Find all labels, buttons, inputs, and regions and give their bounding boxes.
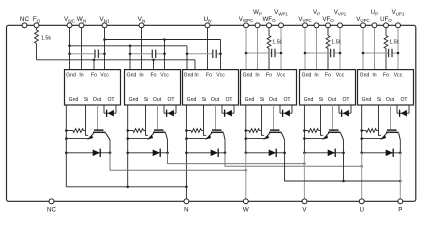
svg-text:NC: NC: [20, 16, 30, 23]
wire U6 Gnd pin to emitter rail: [361, 105, 363, 153]
node freewheel cathode junction: [109, 152, 112, 155]
wire U5 Si pin down: [321, 105, 324, 135]
node RS4/emitter-rail junction: [245, 129, 248, 132]
capacitor C6 (U6 supply): [363, 49, 398, 57]
wire U5 Out pin to gate of Q5: [332, 105, 334, 129]
wire emitter Q6 to terminal U: [361, 153, 363, 202]
wire emitter Q5 to terminal V: [303, 153, 305, 202]
wire Vcc bus tap to U2: [164, 40, 166, 70]
terminal Fo (top): [34, 23, 39, 28]
terminal VWPC: [244, 23, 249, 28]
wire Gnd bus tap to U3: [186, 46, 188, 70]
svg-text:Vcc: Vcc: [100, 73, 109, 79]
wire collector of Q3 down: [224, 140, 226, 153]
node N-bus/Q2 junction: [126, 186, 129, 189]
terminal WFO: [267, 23, 272, 28]
node C6 left junction: [362, 52, 365, 55]
terminal UN: [205, 23, 210, 28]
svg-text:OT: OT: [167, 97, 174, 103]
svg-text:Gnd: Gnd: [362, 97, 372, 103]
node RS6/emitter-rail junction: [360, 129, 363, 132]
terminal W (bottom): [243, 199, 248, 204]
wire U2 Si pin down: [146, 105, 149, 135]
terminal U (bottom): [359, 199, 364, 204]
svg-text:Out: Out: [328, 97, 337, 103]
svg-text:Vcc: Vcc: [336, 73, 345, 79]
driver IC U4: [241, 70, 297, 105]
node P-bus/Q5 junction: [342, 180, 345, 183]
node freewheel anode junction: [185, 152, 188, 155]
diode DS4 (OT sense): [280, 105, 292, 117]
svg-text:Vcc: Vcc: [216, 73, 225, 79]
svg-text:Si: Si: [260, 97, 265, 103]
terminal UFO: [384, 23, 389, 28]
node freewheel anode junction: [65, 152, 68, 155]
svg-text:Si: Si: [144, 97, 149, 103]
svg-text:Vcc: Vcc: [277, 73, 286, 79]
node freewheel cathode junction: [399, 152, 402, 155]
wire VUPC to U6 Gnd: [362, 28, 364, 70]
svg-text:Out: Out: [211, 97, 220, 103]
wire U6 Si pin down: [379, 105, 382, 135]
svg-text:Fo: Fo: [383, 73, 389, 79]
svg-text:Fo: Fo: [325, 73, 331, 79]
node RS1/emitter-rail junction: [65, 129, 68, 132]
wire collector of Q5 down: [343, 140, 345, 153]
terminal VFO: [326, 23, 331, 28]
wire U5 Gnd pin to emitter rail: [303, 105, 305, 153]
node VN1/Vcc-bus junction: [103, 38, 106, 41]
diode D1 (freewheel): [66, 149, 110, 157]
node RS2/emitter-rail junction: [126, 129, 129, 132]
node W-line/Q4-emitter junction: [245, 169, 248, 172]
node emitter/rail junction: [245, 137, 248, 140]
svg-text:Vcc: Vcc: [394, 73, 403, 79]
node C4 right junction: [280, 52, 283, 55]
svg-text:Si: Si: [84, 97, 89, 103]
svg-text:In: In: [79, 73, 83, 79]
svg-text:Gnd: Gnd: [66, 73, 76, 79]
wire Fo tap to U2: [153, 60, 155, 70]
svg-text:Gnd: Gnd: [304, 97, 314, 103]
svg-text:OT: OT: [225, 97, 232, 103]
wire U3 Gnd pin to emitter rail: [185, 105, 187, 153]
resistor R4 1.5k (UFO): [384, 28, 388, 70]
svg-text:Gnd: Gnd: [129, 97, 139, 103]
package outline: [7, 25, 416, 201]
terminal V (bottom): [302, 199, 307, 204]
svg-text:Gnd: Gnd: [187, 97, 197, 103]
terminal N (bottom): [184, 199, 189, 204]
wire collector of Q2 down: [167, 140, 169, 153]
resistor R1 1.5k (Fo pull-up): [35, 28, 39, 60]
wire collector Q2 to V line: [168, 153, 305, 164]
wire U1 Si pin down: [86, 105, 89, 135]
terminal NC (top): [22, 23, 27, 28]
diode D3 (freewheel): [186, 149, 225, 157]
node RS3/emitter-rail junction: [185, 129, 188, 132]
node C2 right junction: [163, 53, 166, 56]
wire WN to U1 In: [81, 28, 83, 70]
svg-text:OT: OT: [107, 97, 114, 103]
node C4 left junction: [245, 52, 248, 55]
svg-text:Gnd: Gnd: [127, 73, 137, 79]
driver IC U6: [358, 70, 414, 105]
wire emitter Q4 to terminal W: [245, 153, 247, 202]
terminal VN1: [102, 23, 107, 28]
svg-text:Gnd: Gnd: [245, 97, 255, 103]
node V-line/Q5-emitter junction: [303, 162, 306, 165]
wire collector Q6 to terminal P: [399, 153, 401, 202]
wire UN to U3 In: [207, 28, 209, 70]
wire emitter Q2 to N bus: [127, 153, 129, 187]
node Gnd-bus/U2 junction: [129, 45, 132, 48]
transistor Q6 (IGBT): [380, 130, 400, 140]
terminal WP: [255, 23, 260, 28]
wire U4 Gnd pin to emitter rail: [245, 105, 247, 153]
diode D4 (freewheel): [246, 149, 285, 157]
wire VP to U5 In: [316, 28, 318, 70]
terminal VVPC: [303, 23, 308, 28]
node freewheel anode junction: [303, 152, 306, 155]
svg-text:Gnd: Gnd: [184, 73, 194, 79]
resistor RS2 (sense): [128, 129, 146, 133]
wire collector Q1 to W line: [110, 153, 246, 171]
svg-text:Si: Si: [202, 97, 207, 103]
wire VWP1 to U4 Vcc: [280, 28, 282, 70]
wire U1 Gnd pin to emitter rail: [65, 105, 67, 153]
wire collector of Q1 down: [109, 140, 111, 153]
node freewheel anode junction: [245, 152, 248, 155]
svg-text:OT: OT: [342, 97, 349, 103]
svg-text:W: W: [243, 207, 249, 214]
wire Fo tap to U3: [194, 60, 196, 70]
node C5 right junction: [339, 52, 342, 55]
svg-text:OT: OT: [283, 97, 290, 103]
diode D5 (freewheel): [304, 149, 343, 157]
wire emitter of Q2 to rail: [128, 138, 149, 140]
diode DS1 (OT sense): [104, 105, 116, 117]
svg-text:In: In: [314, 73, 318, 79]
node C6 right junction: [397, 52, 400, 55]
capacitor C3 (U3 supply): [187, 50, 221, 58]
svg-text:OT: OT: [400, 97, 407, 103]
wire collector Q3 to U line: [225, 153, 362, 166]
svg-text:NC: NC: [47, 207, 56, 214]
node Vcc-bus/U2 junction: [163, 38, 166, 41]
resistor RS5 (sense): [304, 129, 320, 133]
node freewheel anode junction: [360, 152, 363, 155]
terminal WN: [79, 23, 84, 28]
node emitter/rail junction: [126, 137, 129, 140]
svg-text:U: U: [359, 207, 363, 214]
diode D2 (freewheel): [128, 149, 168, 157]
wire emitter of Q3 to rail: [186, 138, 206, 140]
transistor Q4 (IGBT): [263, 130, 285, 140]
resistor RS1 (sense): [66, 129, 85, 133]
diode DS6 (OT sense): [397, 105, 409, 117]
wire U4 Si pin down: [262, 105, 265, 135]
resistor RS3 (sense): [186, 129, 203, 133]
svg-text:In: In: [255, 73, 259, 79]
svg-text:Out: Out: [386, 97, 395, 103]
wire emitter Q1 to N bus: [65, 153, 67, 187]
wire emitter of Q4 to rail: [246, 138, 265, 140]
svg-text:Out: Out: [269, 97, 278, 103]
terminal VN: [139, 23, 144, 28]
svg-text:Gnd: Gnd: [243, 73, 253, 79]
svg-text:Fo: Fo: [151, 73, 157, 79]
node Fo/U1 junction: [93, 59, 96, 62]
node freewheel cathode junction: [224, 152, 227, 155]
svg-text:1.5k: 1.5k: [41, 36, 51, 42]
node freewheel anode junction: [126, 152, 129, 155]
wire Gnd bus (VNC to U2/U3): [70, 45, 188, 47]
wire VNC to U1 Gnd: [69, 28, 71, 70]
node P-bus/Q6 junction: [399, 180, 402, 183]
capacitor C1 (VN1-VNC, U1): [70, 50, 105, 58]
svg-text:Fo: Fo: [206, 73, 212, 79]
wire emitter Q3 to terminal N: [185, 153, 187, 202]
wire Gnd bus tap to U2: [129, 46, 131, 70]
svg-text:Gnd: Gnd: [302, 73, 312, 79]
wire Fo tap to U1: [93, 60, 95, 70]
diode D6 (freewheel): [362, 149, 401, 157]
wire U6 Out pin to gate of Q6: [390, 105, 392, 129]
node emitter/rail junction: [360, 137, 363, 140]
wire N bus: [66, 186, 186, 188]
svg-text:Out: Out: [93, 97, 102, 103]
node C2 left junction: [129, 53, 132, 56]
wire WP to U4 In: [257, 28, 259, 70]
node VNC/Gnd-bus junction: [68, 45, 71, 48]
svg-text:In: In: [139, 73, 143, 79]
terminal VP: [314, 23, 319, 28]
resistor RS6 (sense): [362, 129, 379, 133]
node emitter/rail junction: [65, 137, 68, 140]
driver IC U1: [65, 70, 121, 105]
node C3 right junction: [219, 53, 222, 56]
node emitter/rail junction: [303, 137, 306, 140]
svg-text:Si: Si: [319, 97, 324, 103]
diode DS3 (OT sense): [222, 105, 234, 117]
svg-text:Fo: Fo: [91, 73, 97, 79]
wire VUP1 to U6 Vcc: [397, 28, 399, 70]
svg-text:Vcc: Vcc: [160, 73, 169, 79]
wire U1 Out pin to gate of Q1: [97, 105, 99, 129]
svg-text:Si: Si: [377, 97, 382, 103]
wire emitter of Q5 to rail: [304, 138, 323, 140]
transistor Q2 (IGBT): [147, 130, 168, 140]
svg-text:Gnd: Gnd: [360, 73, 370, 79]
node C5 left junction: [304, 52, 307, 55]
wire U2 Gnd pin to emitter rail: [127, 105, 129, 153]
node C1 left junction: [68, 53, 71, 56]
node C3 left junction: [186, 53, 189, 56]
driver IC U2: [125, 70, 181, 105]
transistor Q5 (IGBT): [322, 130, 344, 140]
node C1 right junction: [103, 53, 106, 56]
node freewheel cathode junction: [342, 152, 345, 155]
terminal P (bottom): [398, 199, 403, 204]
terminal VNC: [67, 23, 72, 28]
wire Fo bus: [37, 59, 196, 61]
svg-text:P: P: [398, 207, 402, 214]
svg-text:In: In: [372, 73, 376, 79]
wire VN to U2 In: [141, 28, 143, 70]
transistor Q3 (IGBT): [205, 130, 225, 140]
transistor Q1 (IGBT): [87, 130, 110, 140]
terminal NC (bottom): [49, 199, 54, 204]
driver IC U3: [183, 70, 239, 105]
terminal VUP1: [396, 23, 401, 28]
wire Vcc bus (VN1 to U2/U3): [105, 39, 221, 41]
terminal VWP1: [279, 23, 284, 28]
wire collector Q5 to P bus: [343, 153, 345, 181]
svg-text:Fo: Fo: [266, 73, 272, 79]
node U-line/Q6-emitter junction: [360, 165, 363, 168]
wire VN1 to U1 Vcc: [104, 28, 106, 70]
wire emitter of Q6 to rail: [362, 138, 382, 140]
node freewheel cathode junction: [166, 152, 169, 155]
resistor R3 1.5k (VFO): [326, 28, 330, 70]
wire collector of Q6 down: [399, 140, 401, 153]
terminal VVP1: [338, 23, 343, 28]
svg-text:In: In: [194, 73, 198, 79]
svg-text:Gnd: Gnd: [69, 97, 79, 103]
diode DS5 (OT sense): [339, 105, 351, 117]
wire VWPC to U4 Gnd: [245, 28, 247, 70]
diode DS2 (OT sense): [164, 105, 176, 117]
wire emitter of Q1 to rail: [66, 138, 88, 140]
node Fo/U2 junction: [152, 59, 155, 62]
wire U3 Si pin down: [204, 105, 207, 135]
wire collector of Q4 down: [284, 140, 286, 153]
terminal VUPC: [361, 23, 366, 28]
wire Vcc bus tap to U3: [220, 40, 222, 70]
resistor R2 1.5k (WFO): [267, 28, 271, 70]
capacitor C4 (U4 supply): [246, 49, 281, 57]
terminal UP: [372, 23, 377, 28]
node freewheel cathode junction: [283, 152, 286, 155]
wire collector Q4 to P bus: [285, 153, 401, 181]
wire UP to U6 In: [374, 28, 376, 70]
wire U4 Out pin to gate of Q4: [273, 105, 275, 129]
wire U3 Out pin to gate of Q3: [215, 105, 217, 129]
svg-text:N: N: [184, 207, 188, 214]
node N-bus/Q3 junction: [185, 186, 188, 189]
resistor RS4 (sense): [246, 129, 262, 133]
capacitor C2 (U2 supply): [130, 50, 165, 58]
wire U2 Out pin to gate of Q2: [157, 105, 159, 129]
driver IC U5: [300, 70, 356, 105]
svg-text:Out: Out: [153, 97, 162, 103]
node RS5/emitter-rail junction: [303, 129, 306, 132]
capacitor C5 (U5 supply): [305, 49, 340, 57]
wire VVPC to U5 Gnd: [304, 28, 306, 70]
wire VVP1 to U5 Vcc: [339, 28, 341, 70]
node emitter/rail junction: [185, 137, 188, 140]
